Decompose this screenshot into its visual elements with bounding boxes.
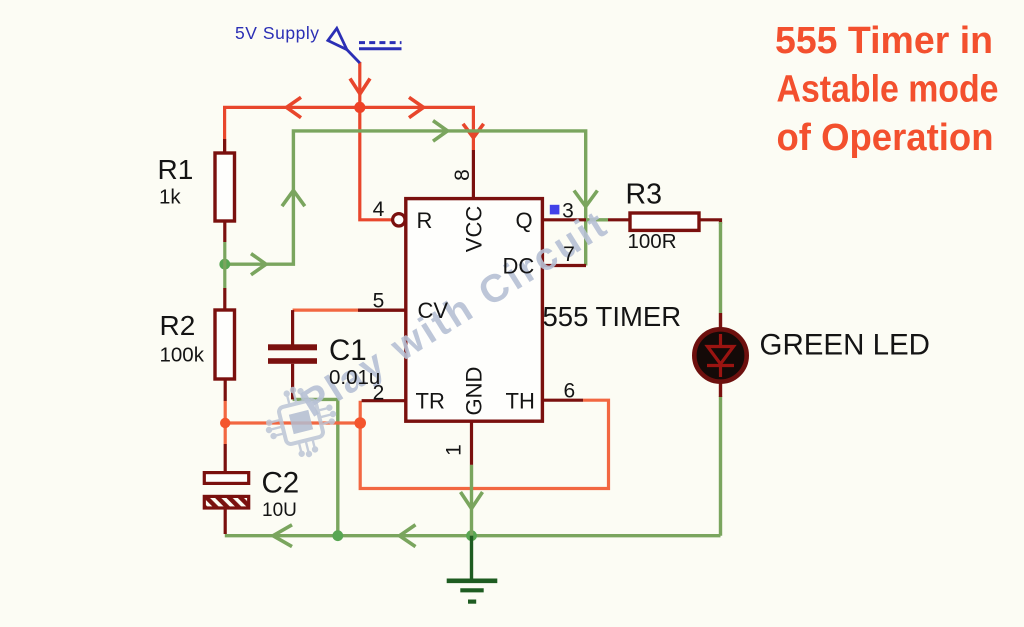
- svg-text:Astable mode: Astable mode: [777, 69, 999, 111]
- svg-text:GREEN LED: GREEN LED: [760, 329, 931, 362]
- svg-text:R: R: [417, 208, 433, 233]
- pin 1 lead: [470, 421, 473, 465]
- arrow green left 1: [273, 525, 292, 547]
- pin 7 DC lead: [543, 264, 586, 267]
- svg-text:100R: 100R: [628, 230, 677, 253]
- LED D1 green led: [719, 313, 722, 332]
- svg-text:10U: 10U: [262, 500, 297, 521]
- svg-text:C1: C1: [329, 334, 367, 367]
- capacitor C1: [358, 309, 406, 312]
- node: green dot bottom C1: [332, 530, 343, 541]
- node: orange dot R2: [220, 418, 230, 428]
- svg-text:VCC: VCC: [462, 206, 487, 253]
- node: junction dot supply: [354, 102, 365, 113]
- svg-text:CV: CV: [418, 298, 449, 323]
- svg-text:R2: R2: [160, 310, 196, 341]
- pin 2 TR lead: [362, 399, 406, 402]
- node: green junction R1-R2: [219, 259, 230, 270]
- ground: [447, 536, 498, 602]
- svg-text:C2: C2: [262, 467, 300, 500]
- svg-text:5: 5: [373, 290, 385, 313]
- wire: main top red rail: [225, 107, 474, 152]
- pin 5 CV lead: [358, 309, 406, 312]
- svg-text:5V Supply: 5V Supply: [235, 23, 319, 43]
- svg-text:6: 6: [564, 380, 576, 403]
- svg-text:555 TIMER: 555 TIMER: [543, 301, 682, 332]
- svg-text:1: 1: [443, 444, 466, 456]
- capacitor C2: [224, 508, 227, 535]
- wire: green net R1/R2 junction to DC: [225, 131, 586, 266]
- arrow green left 2: [400, 525, 416, 547]
- svg-text:555 Timer in: 555 Timer in: [775, 20, 993, 62]
- watermark chip icon: [259, 380, 344, 465]
- svg-text:DC: DC: [503, 254, 535, 279]
- pin 6 TH lead: [543, 399, 583, 402]
- arrow green down pin1: [461, 492, 483, 509]
- wire: pin1 to ground: [470, 465, 473, 536]
- arrow red down supply: [350, 79, 370, 94]
- node: green dot bottom GND: [466, 530, 477, 541]
- svg-text:R3: R3: [626, 179, 662, 211]
- svg-text:R1: R1: [158, 154, 194, 185]
- arrow red left rail: [287, 97, 302, 117]
- arrow green down to Q: [574, 191, 597, 207]
- arrow red down pin8: [463, 124, 484, 138]
- wire: green LED to bottom rail: [719, 396, 722, 536]
- svg-text:TH: TH: [506, 389, 535, 414]
- svg-text:1k: 1k: [159, 186, 181, 209]
- arrow green right top: [433, 121, 448, 142]
- node marker blue square pin3: [550, 205, 560, 215]
- arrow green up: [282, 191, 305, 207]
- svg-text:8: 8: [451, 169, 474, 181]
- svg-text:of Operation: of Operation: [777, 117, 994, 159]
- arrow green right low: [251, 254, 266, 275]
- wire: bottom green rail: [225, 534, 721, 537]
- pin 4 bubble: [393, 214, 405, 226]
- svg-text:2: 2: [373, 382, 385, 405]
- wire: green short over Q lead: [584, 218, 608, 221]
- wire: green C1 to bottom rail: [293, 399, 338, 535]
- resistor R1: [223, 221, 226, 242]
- node: orange dot TR: [354, 417, 366, 429]
- IC U1 555 timer body: [406, 199, 543, 422]
- svg-text:TR: TR: [416, 389, 445, 414]
- svg-text:GND: GND: [462, 367, 487, 416]
- wire: supply red vertical to pin4: [360, 62, 393, 220]
- resistor R3: [608, 218, 630, 221]
- resistor R2: [224, 379, 227, 401]
- wire: maroon lead above R1: [223, 139, 226, 153]
- wire: orange TR junction rail: [225, 421, 360, 424]
- arrow red right rail: [409, 97, 424, 117]
- pin 3 Q lead: [543, 218, 586, 221]
- wire: orange TR-TH loop: [360, 400, 608, 488]
- svg-text:3: 3: [562, 200, 574, 223]
- svg-text:100k: 100k: [160, 344, 205, 367]
- wire: green R3 to LED: [719, 222, 722, 313]
- pin 8 lead: [472, 150, 475, 198]
- svg-text:4: 4: [373, 198, 385, 221]
- power symbol 5V supply: [328, 28, 402, 63]
- svg-text:7: 7: [563, 243, 575, 266]
- svg-text:Q: Q: [516, 208, 533, 233]
